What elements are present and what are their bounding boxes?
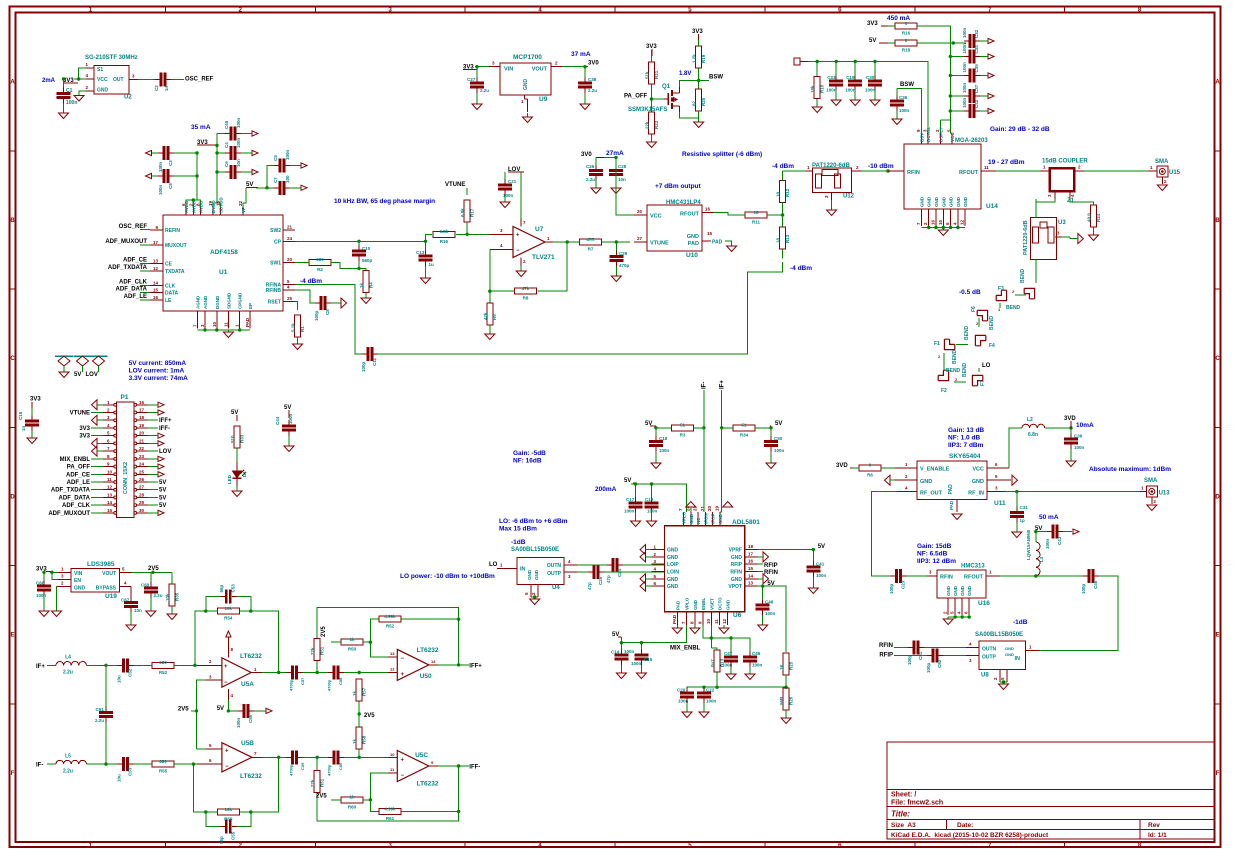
- svg-text:3V3: 3V3: [30, 397, 41, 403]
- wire c41 top: [812, 550, 814, 562]
- svg-text:ADF_CE: ADF_CE: [66, 472, 90, 478]
- svg-text:100n: 100n: [1045, 538, 1050, 549]
- svg-text:LOIN: LOIN: [667, 570, 679, 576]
- svg-text:U2: U2: [124, 95, 132, 101]
- svg-text:16: 16: [139, 400, 145, 405]
- svg-text:5V: 5V: [284, 405, 291, 411]
- svg-text:100n: 100n: [774, 448, 785, 453]
- junction r60 r: [369, 798, 372, 801]
- svg-text:C52: C52: [937, 659, 942, 668]
- wire r59 r: [239, 757, 278, 812]
- svg-text:RFOUT: RFOUT: [959, 170, 979, 176]
- svg-text:100n: 100n: [236, 117, 241, 128]
- wire C1 top: [63, 79, 65, 88]
- power label 3V3 (adf bank): [197, 140, 217, 146]
- wire f7 lo: [978, 368, 980, 372]
- svg-text:5V: 5V: [74, 372, 81, 378]
- svg-text:PA_OFF: PA_OFF: [67, 465, 91, 471]
- IC U16 HMC313: [927, 570, 1000, 616]
- wire u5c fb: [458, 766, 460, 812]
- wire c17 top: [635, 484, 637, 498]
- svg-text:SDGND: SDGND: [226, 292, 231, 309]
- svg-text:REFIN: REFIN: [165, 228, 180, 234]
- svg-text:R18: R18: [902, 48, 911, 53]
- svg-text:ADF_TXDATA: ADF_TXDATA: [108, 265, 148, 271]
- wire 3v3 u9: [475, 66, 489, 68]
- svg-text:C19: C19: [846, 75, 855, 80]
- ground C20: [682, 712, 692, 718]
- wire r22 gnd: [651, 134, 653, 142]
- wire 2v5 stub: [191, 710, 197, 712]
- ground arrow (P1 pin 7): [92, 446, 104, 456]
- ground arrow u11 gnd2: [885, 475, 896, 485]
- junction r59 l: [204, 810, 207, 813]
- svg-text:SW2: SW2: [270, 228, 281, 234]
- svg-text:18: 18: [776, 237, 781, 243]
- ground below C1: [59, 113, 69, 119]
- net label ADF_MUXOUT (P1 pin 15): [48, 511, 103, 517]
- resistor R10 1k: [810, 77, 825, 99]
- junction mga gnd 3: [942, 226, 945, 229]
- junction div node t: [358, 671, 361, 674]
- svg-text:IN: IN: [1015, 656, 1021, 662]
- svg-text:GND: GND: [919, 196, 924, 207]
- svg-text:24: 24: [287, 236, 293, 241]
- wire r18 to caps: [917, 42, 966, 44]
- svg-text:NF: 16dB: NF: 16dB: [513, 458, 542, 465]
- wire u8 gnd: [1000, 681, 1007, 683]
- svg-text:C13: C13: [416, 250, 425, 255]
- capacitor C6 10n: [224, 159, 241, 179]
- svg-text:GND: GND: [689, 513, 694, 524]
- svg-text:Gain: -5dB: Gain: -5dB: [513, 450, 546, 457]
- wire vp pin down: [243, 188, 246, 207]
- svg-text:TXDATA: TXDATA: [165, 269, 185, 275]
- junction CP a: [357, 240, 360, 243]
- ground arrow u6 right 14: [758, 574, 769, 584]
- svg-text:C10: C10: [362, 246, 371, 251]
- wire led gnd: [236, 486, 238, 491]
- bend F7: [962, 362, 986, 386]
- svg-text:C42: C42: [974, 99, 979, 108]
- svg-text:R16: R16: [902, 31, 911, 36]
- svg-text:3VD: 3VD: [1064, 416, 1076, 422]
- svg-text:100n: 100n: [624, 509, 635, 514]
- wire C45 arrow: [241, 133, 252, 135]
- svg-text:−: −: [401, 656, 405, 662]
- wire c53f l: [206, 597, 221, 612]
- junction mga gnd 1: [927, 226, 930, 229]
- ground U9: [523, 113, 533, 123]
- junction r54 r: [249, 609, 252, 612]
- wire c51 bot: [105, 723, 107, 765]
- svg-text:C6: C6: [224, 161, 229, 167]
- svg-text:5V: 5V: [869, 38, 876, 44]
- resistor R57a 1k: [352, 679, 367, 701]
- svg-text:10k: 10k: [165, 593, 170, 601]
- wire C10 bot: [358, 261, 360, 269]
- wire R2 to node: [331, 262, 359, 268]
- svg-text:56p: 56p: [219, 836, 224, 844]
- capacitor C16 1n: [18, 411, 39, 431]
- junction l3 5v: [1034, 530, 1037, 533]
- power label 5V (mix2): [612, 632, 621, 638]
- wire le stub: [140, 299, 150, 301]
- capacitor C28 10n: [609, 164, 627, 182]
- wire f2 f7: [954, 381, 966, 383]
- ground C30: [870, 100, 880, 106]
- wire fb up: [195, 611, 206, 665]
- wire r51 bot: [316, 661, 318, 673]
- wire u5b pin5: [197, 748, 207, 750]
- wire R13s top: [782, 215, 784, 227]
- svg-text:100n: 100n: [158, 161, 163, 172]
- svg-text:DGND: DGND: [215, 295, 220, 309]
- capacitor C35 100n: [962, 62, 980, 83]
- svg-text:BEND: BEND: [962, 362, 968, 377]
- coupler Z1: [1040, 165, 1084, 205]
- capacitor C11 100p: [361, 347, 378, 372]
- wire f3 f6: [999, 303, 1001, 308]
- wire u4 gnd: [531, 596, 538, 598]
- svg-text:25: 25: [287, 296, 293, 301]
- ground arrow (P1 pin 6): [92, 438, 104, 448]
- svg-text:E: E: [1215, 633, 1219, 639]
- svg-text:F6: F6: [971, 306, 977, 312]
- wire if- l5: [47, 763, 56, 765]
- svg-text:BEND: BEND: [964, 325, 970, 340]
- svg-text:4700p: 4700p: [327, 679, 332, 691]
- wire c19 gnd: [651, 513, 653, 522]
- wire c51 u8: [924, 647, 966, 649]
- ground C29: [611, 276, 621, 282]
- wire div up: [370, 619, 378, 642]
- wire c39 top: [1070, 428, 1072, 434]
- wire mga to coupler: [996, 170, 1040, 172]
- power label 5V (cap col): [284, 405, 291, 418]
- svg-text:A: A: [10, 80, 15, 86]
- wire bsw to drain: [679, 81, 698, 88]
- svg-text:R25: R25: [789, 661, 794, 670]
- svg-text:680: 680: [159, 759, 167, 764]
- svg-text:15: 15: [707, 231, 713, 236]
- svg-text:12: 12: [107, 485, 113, 490]
- svg-text:HMC313: HMC313: [961, 564, 985, 570]
- svg-text:U9: U9: [539, 96, 548, 103]
- power arrow right of C6: [252, 169, 258, 174]
- junction mga gnd 2: [934, 226, 937, 229]
- svg-text:12: 12: [722, 618, 727, 624]
- wire c39 gnd: [1070, 449, 1072, 461]
- svg-text:PA_OFF: PA_OFF: [624, 94, 648, 100]
- svg-text:R12: R12: [785, 188, 790, 197]
- capacitor C25 series: [587, 565, 604, 590]
- op-amp U5B LT6232: [197, 740, 263, 780]
- text 15dB coupler: [1042, 159, 1088, 165]
- svg-text:R16: R16: [440, 239, 449, 244]
- svg-text:17: 17: [153, 240, 159, 245]
- wire c22 gnd: [703, 703, 705, 712]
- capacitor C60 2.2u: [141, 582, 163, 598]
- junction u5a in: [193, 664, 196, 667]
- svg-text:21: 21: [139, 438, 145, 443]
- power arrow C34: [988, 54, 994, 59]
- wire node to R4: [359, 269, 366, 271]
- svg-text:1n: 1n: [164, 85, 169, 91]
- svg-text:GND: GND: [967, 585, 972, 596]
- text mixer gain note: [513, 450, 546, 465]
- svg-text:47p: 47p: [587, 582, 592, 590]
- capacitor C18 100n: [649, 436, 670, 454]
- capacitor C12b 100p: [314, 296, 331, 321]
- svg-text:16: 16: [705, 207, 711, 212]
- svg-text:VOUT: VOUT: [102, 571, 116, 577]
- svg-text:C38: C38: [588, 77, 597, 82]
- svg-text:4700p: 4700p: [327, 764, 332, 776]
- ground C60: [146, 611, 156, 617]
- svg-text:Id: 1/1: Id: 1/1: [1148, 832, 1167, 839]
- wire C42 arrow: [980, 110, 988, 112]
- wire R7 out: [567, 241, 579, 243]
- svg-text:RFIN: RFIN: [940, 575, 953, 581]
- wire C4 arrow: [241, 152, 252, 154]
- svg-text:SA00BL15B050E: SA00BL15B050E: [975, 632, 1023, 638]
- svg-text:10u: 10u: [117, 675, 122, 683]
- op-amp U5A LT6232: [197, 637, 263, 700]
- svg-text:GND: GND: [1005, 646, 1014, 651]
- svg-text:R58: R58: [362, 735, 367, 744]
- svg-text:100n: 100n: [624, 649, 635, 654]
- net label IF- (mixer): [702, 382, 708, 389]
- junction 3vd l2: [1069, 426, 1072, 429]
- svg-text:IF+: IF+: [720, 380, 726, 389]
- svg-text:C2: C2: [154, 85, 159, 91]
- net label OSC_REF (pin9): [119, 224, 148, 230]
- svg-text:MIX_ENBL: MIX_ENBL: [670, 646, 701, 652]
- svg-text:2V5: 2V5: [178, 707, 189, 713]
- wire R13s bot: [782, 249, 784, 258]
- svg-text:100n: 100n: [962, 43, 967, 54]
- power label 3V3 (mga): [867, 21, 888, 27]
- wire u5b out: [262, 756, 290, 758]
- wire div b dn: [370, 800, 378, 812]
- junction div node b: [358, 756, 361, 759]
- net label ADF_DATA: [116, 287, 148, 293]
- svg-text:ADF_CE: ADF_CE: [123, 258, 147, 264]
- power arrow right of C4: [252, 150, 258, 155]
- wire div to pin: [370, 642, 397, 657]
- ground C66: [39, 611, 49, 617]
- svg-text:R9: R9: [492, 314, 497, 320]
- svg-text:C5: C5: [273, 155, 278, 161]
- wire r50 r: [363, 641, 370, 643]
- power label 3VD (l2): [1064, 416, 1076, 428]
- power arrow right of C7: [301, 185, 307, 190]
- junction l3 rf: [1034, 574, 1037, 577]
- capacitor C44 100n: [275, 413, 296, 436]
- junction u5b out: [277, 756, 280, 759]
- bend F3: [996, 286, 1020, 311]
- power arrow U5A V+: [226, 631, 231, 637]
- resistor R25 1K: [779, 653, 794, 675]
- ground C44: [284, 446, 294, 452]
- svg-text:100n: 100n: [1074, 445, 1085, 450]
- svg-text:F2: F2: [941, 388, 947, 394]
- svg-text:C39: C39: [1074, 434, 1083, 439]
- svg-text:C53: C53: [128, 767, 133, 776]
- svg-text:12: 12: [153, 266, 159, 271]
- svg-text:82: 82: [692, 100, 697, 106]
- wire c51 top: [105, 665, 107, 706]
- net label IF+ (mixer): [720, 380, 726, 389]
- ground R4: [361, 298, 371, 304]
- text 200mA: [595, 486, 617, 493]
- wire u50 fb: [458, 619, 460, 665]
- svg-text:100: 100: [285, 175, 290, 183]
- wire r61 r: [401, 811, 459, 813]
- svg-text:C32: C32: [974, 29, 979, 38]
- junction c22: [702, 686, 705, 689]
- wire c60 gnd: [150, 598, 152, 612]
- wire 5v r18: [888, 42, 895, 44]
- svg-text:PAD: PAD: [672, 614, 677, 624]
- svg-text:GND: GND: [667, 548, 679, 554]
- ground U10 pad: [727, 246, 737, 252]
- wire r19 top: [698, 40, 700, 46]
- svg-text:RFOUT: RFOUT: [680, 212, 700, 218]
- junction avdd c: [192, 198, 195, 201]
- svg-text:U8: U8: [981, 673, 989, 679]
- junction u9 in: [475, 65, 478, 68]
- wire C9 to rail: [174, 175, 197, 177]
- svg-text:470p: 470p: [619, 263, 630, 268]
- svg-text:14: 14: [107, 500, 113, 505]
- capacitor C51i 2.2u: [95, 707, 113, 723]
- svg-text:50 mA: 50 mA: [1039, 514, 1059, 521]
- svg-text:10k: 10k: [225, 807, 233, 812]
- text -1dB (u8): [1013, 619, 1028, 626]
- wire c66 gnd: [43, 596, 45, 612]
- ground C17: [631, 521, 641, 527]
- svg-text:+: +: [401, 672, 405, 678]
- svg-text:10n: 10n: [236, 159, 241, 167]
- IC U11 SKY65404: [895, 461, 1011, 512]
- svg-text:51k: 51k: [645, 71, 650, 79]
- wire vplo rail: [631, 484, 687, 512]
- wire gate: [652, 98, 665, 100]
- svg-text:IFOP: IFOP: [711, 513, 716, 524]
- wire c55 l: [206, 812, 221, 827]
- SAW filter U8: [966, 641, 1040, 682]
- junction r34 if: [720, 426, 723, 429]
- wire c55 r: [236, 812, 251, 827]
- wire c60 top: [150, 572, 152, 582]
- wire IF+ down: [720, 390, 722, 512]
- wire c58 node: [344, 672, 370, 674]
- svg-text:RFIN: RFIN: [730, 570, 742, 576]
- svg-text:GND: GND: [946, 585, 951, 596]
- wire vtune label down: [466, 188, 468, 195]
- capacitor C22 100n: [697, 687, 717, 704]
- svg-text:U14: U14: [986, 203, 998, 210]
- svg-text:100p: 100p: [926, 662, 931, 673]
- svg-text:1k: 1k: [352, 738, 357, 744]
- wire f1 f2: [943, 353, 945, 370]
- power arrow right of C5: [301, 163, 307, 168]
- svg-text:4.99k: 4.99k: [384, 614, 396, 619]
- wire C30 top: [874, 62, 876, 76]
- wire outp to cap: [577, 571, 588, 573]
- junction c47: [729, 636, 732, 639]
- wire LOV down: [520, 172, 522, 219]
- resistor R9 47k: [483, 303, 497, 325]
- power label 5V (led): [231, 410, 238, 421]
- power label 3V3 (q1): [646, 44, 657, 56]
- resistor R60 1k: [341, 795, 363, 810]
- svg-text:100p: 100p: [889, 583, 894, 594]
- svg-text:GND: GND: [687, 234, 699, 240]
- net label BSW (mga): [900, 82, 914, 88]
- svg-text:3V3: 3V3: [79, 426, 90, 432]
- resistor R54 10k: [217, 606, 239, 621]
- capacitor C3 100n: [158, 146, 174, 172]
- capacitor C9 100n: [158, 169, 174, 195]
- svg-text:18: 18: [215, 200, 220, 206]
- svg-text:1n: 1n: [21, 425, 26, 431]
- svg-text:ADF4158: ADF4158: [210, 249, 238, 256]
- wire c38 gnd: [584, 93, 586, 104]
- svg-text:AGND: AGND: [195, 295, 200, 309]
- wire 5v to C7: [267, 187, 274, 189]
- power arrow C35: [988, 73, 994, 78]
- wire r55 u5b: [174, 763, 198, 765]
- svg-text:D: D: [1215, 494, 1220, 500]
- svg-text:47k: 47k: [483, 312, 488, 320]
- svg-text:GND: GND: [927, 196, 932, 207]
- svg-text:D1: D1: [242, 471, 247, 477]
- ground C47: [726, 674, 736, 680]
- wire rail to cap 111: [950, 110, 964, 112]
- junction c66: [42, 571, 45, 574]
- wire rail to C4: [217, 152, 225, 154]
- svg-text:3V0: 3V0: [588, 61, 599, 67]
- wire l2 to 3vd: [1045, 427, 1071, 429]
- junction r61 r: [457, 810, 460, 813]
- svg-text:100n: 100n: [285, 149, 290, 160]
- svg-text:PAD: PAD: [245, 317, 250, 327]
- power label 3V3 (p1): [30, 397, 41, 409]
- wire bias rail left: [808, 61, 888, 63]
- svg-text:20: 20: [287, 257, 293, 262]
- wire c56 arrow: [254, 710, 266, 712]
- svg-text:R6: R6: [867, 472, 873, 477]
- svg-text:100p: 100p: [1081, 583, 1086, 594]
- junction vset node: [784, 686, 787, 689]
- wire R4 gnd: [365, 293, 367, 299]
- svg-text:51: 51: [680, 423, 686, 428]
- junction 3v3 rail entry: [215, 144, 218, 147]
- net label MIX_ENBL (u6): [670, 646, 701, 652]
- text SKY65404: [949, 453, 981, 460]
- net label VTUNE (P1 pin 2): [70, 411, 103, 417]
- wire splitter to U12: [783, 170, 806, 172]
- wire c44 gnd: [288, 436, 290, 446]
- ground C50: [766, 463, 776, 469]
- svg-text:U15: U15: [1169, 170, 1181, 176]
- svg-text:18: 18: [139, 415, 145, 420]
- svg-text:27mA: 27mA: [606, 150, 624, 157]
- attenuator U3 PAT1220-6dB: [1023, 199, 1066, 260]
